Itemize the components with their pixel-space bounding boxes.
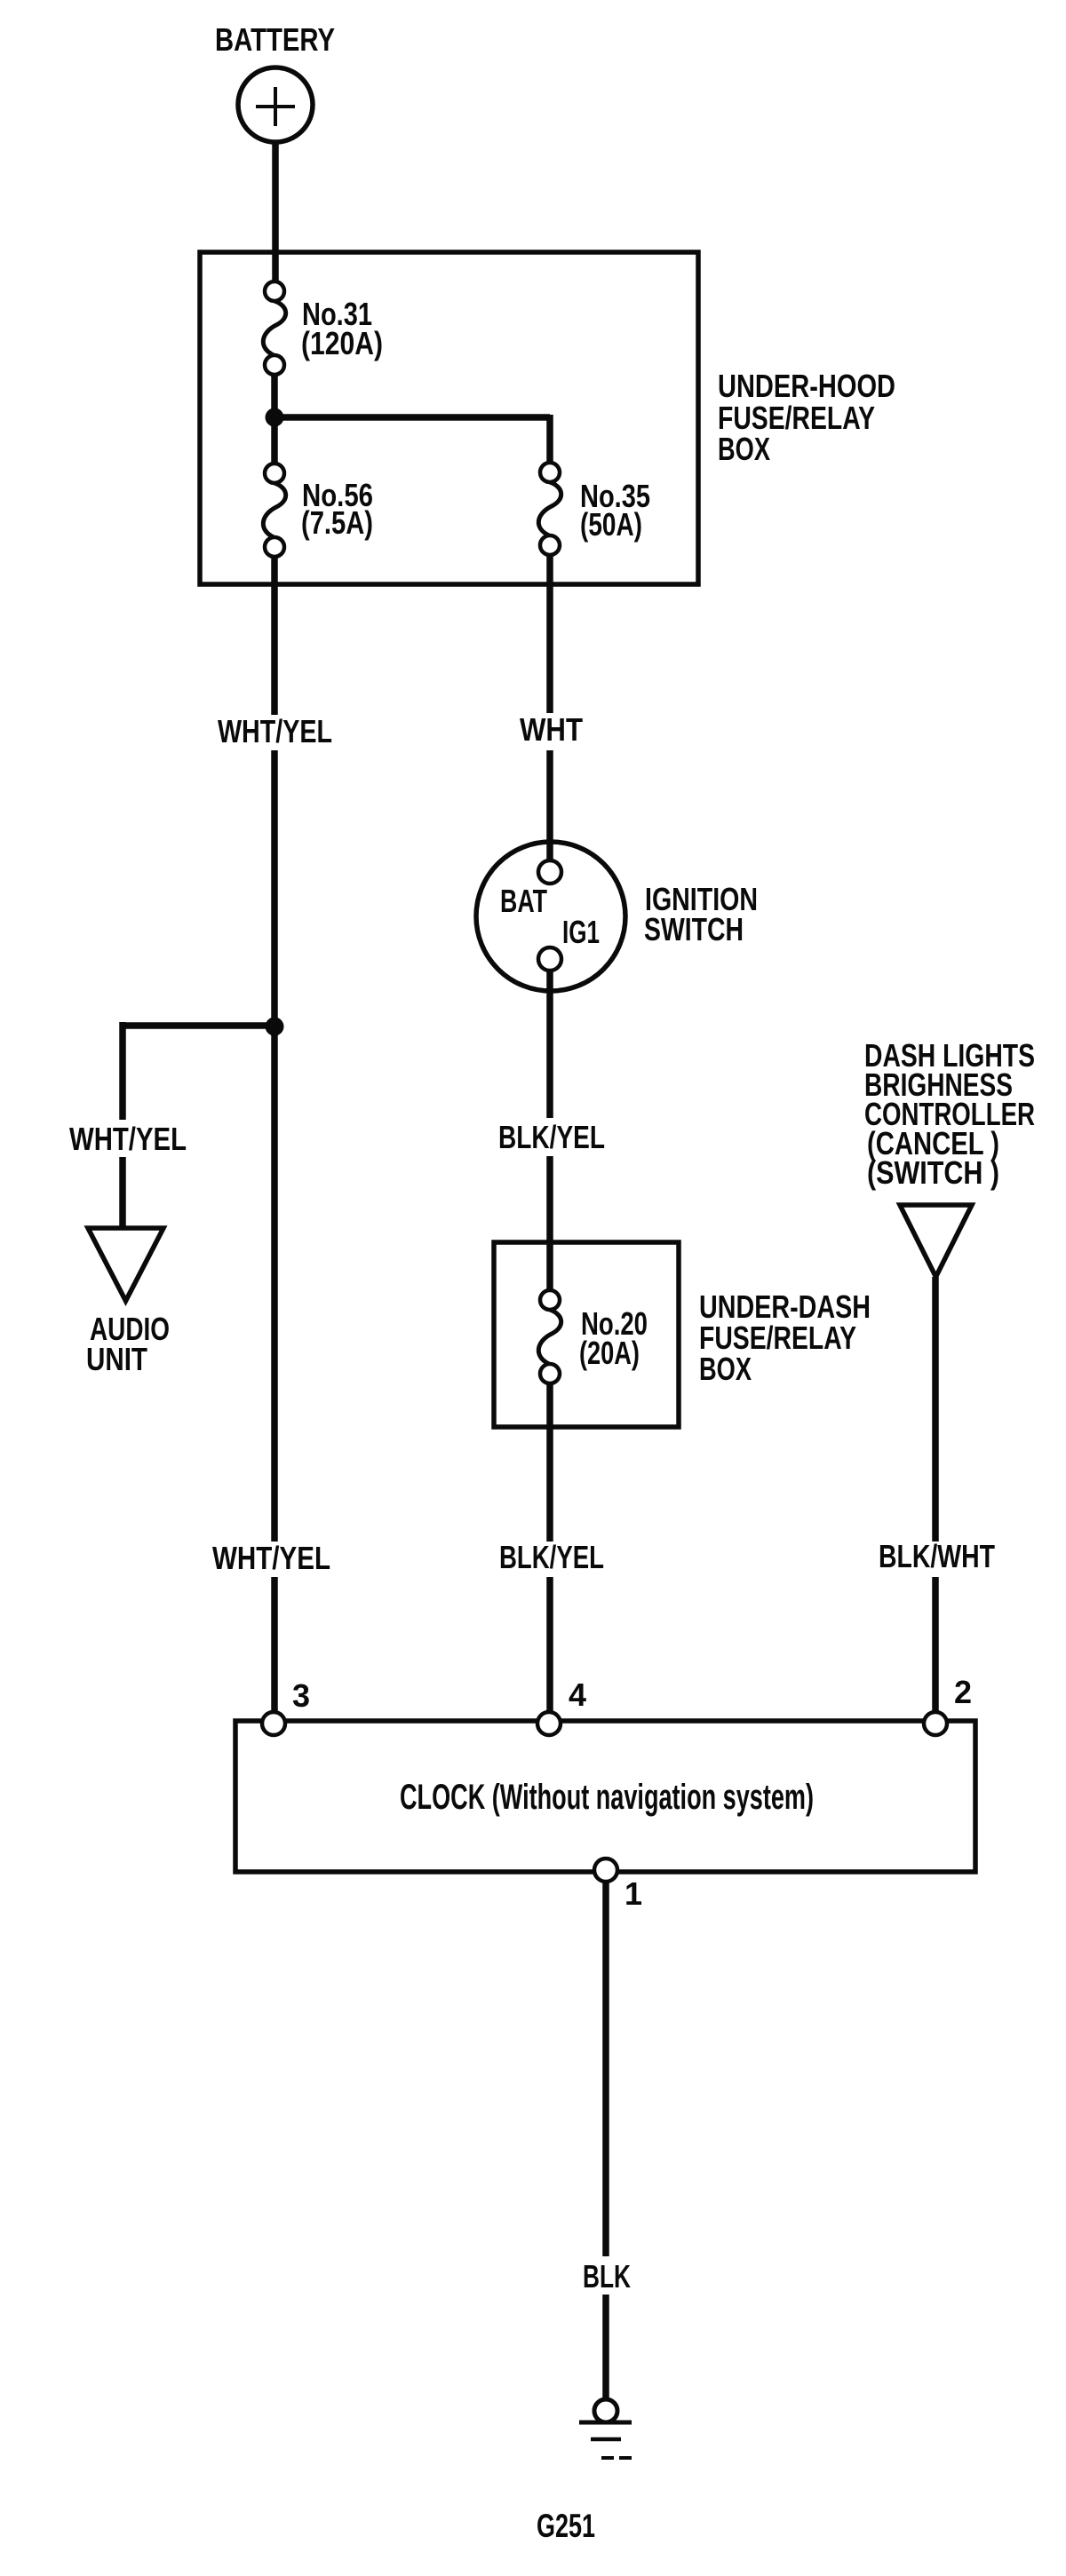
battery positive terminal symbol [238, 67, 313, 142]
under-dash fuse/relay box label [699, 1288, 871, 1387]
svg-text:(20A): (20A) [579, 1335, 640, 1371]
svg-text:BLK: BLK [583, 2258, 631, 2295]
wire branch vertical down [119, 1022, 126, 1120]
svg-text:BAT: BAT [500, 883, 547, 919]
svg-text:WHT: WHT [520, 711, 583, 748]
wire controller down (BLK/WHT net) [932, 1277, 939, 1542]
svg-text:G251: G251 [537, 2508, 595, 2544]
ground G251 symbol [579, 2399, 632, 2458]
svg-text:BLK/YEL: BLK/YEL [498, 1119, 605, 1155]
wire BLK/YEL into under-dash box [546, 1156, 553, 1292]
svg-text:BATTERY: BATTERY [215, 21, 335, 58]
wire branch horizontal to audio unit [123, 1022, 274, 1029]
pin 2 [924, 1712, 947, 1735]
pin 4 [537, 1712, 561, 1735]
wire fuse56 down out of box (WHT/YEL net) [271, 557, 278, 715]
dash lights brightness controller label [864, 1037, 1035, 1191]
wire BLK to ground [602, 2295, 609, 2400]
fuse No.56 value label [301, 477, 373, 541]
svg-text:BLK/YEL: BLK/YEL [499, 1539, 604, 1575]
fuse No.35 (50A) [538, 463, 561, 555]
wire fuse31 to junction [271, 373, 278, 417]
fuse No.20 (20A) [538, 1290, 561, 1383]
dash lights brightness controller connector triangle [900, 1205, 972, 1277]
svg-text:WHT/YEL: WHT/YEL [69, 1121, 187, 1157]
svg-text:4: 4 [569, 1676, 586, 1713]
fuse No.35 value label [580, 478, 650, 543]
svg-text:1: 1 [624, 1875, 642, 1912]
wire WHT/YEL continues to clock area [271, 750, 278, 1542]
audio unit label [86, 1311, 170, 1377]
wire WHT to ignition switch [546, 750, 553, 862]
svg-text:3: 3 [292, 1677, 310, 1714]
svg-text:WHT/YEL: WHT/YEL [212, 1540, 330, 1576]
junction node to audio branch [266, 1018, 284, 1036]
pin 1 [594, 1859, 617, 1882]
wire fuse35 down out of box (WHT net) [546, 555, 553, 713]
under-dash fuse/relay box [494, 1242, 679, 1427]
svg-text:BOX: BOX [718, 431, 770, 467]
fuse No.31 (120A) [263, 281, 285, 375]
fuse No.56 (7.5A) [263, 464, 285, 557]
wire junction to fuse No.56 [271, 417, 278, 464]
svg-text:CLOCK (Without navigation syst: CLOCK (Without navigation system) [400, 1778, 814, 1817]
svg-text:(120A): (120A) [301, 325, 383, 361]
wire BLK/WHT to clock pin 2 [932, 1577, 939, 1714]
svg-text:BOX: BOX [699, 1351, 752, 1387]
svg-text:BLK/WHT: BLK/WHT [879, 1538, 995, 1574]
wire junction to fuse No.35 branch horizontal [272, 414, 550, 421]
svg-text:(50A): (50A) [580, 506, 642, 543]
wire to audio unit connector [119, 1157, 126, 1231]
svg-text:(SWITCH ): (SWITCH ) [867, 1154, 999, 1191]
svg-text:2: 2 [954, 1674, 972, 1710]
svg-text:(7.5A): (7.5A) [301, 504, 373, 541]
wire down to fuse No.35 [546, 415, 553, 464]
wire ignition IG1 down (BLK/YEL net) [546, 970, 553, 1118]
fuse No.20 value label [579, 1305, 648, 1371]
svg-text:IG1: IG1 [562, 914, 600, 950]
svg-text:SWITCH: SWITCH [644, 911, 744, 947]
wire WHT/YEL to clock pin 3 [271, 1577, 278, 1714]
wire pin 1 down (BLK net) [602, 1882, 609, 2256]
audio unit connector triangle [88, 1228, 163, 1301]
svg-text:UNIT: UNIT [86, 1341, 147, 1377]
svg-text:UNDER-HOOD: UNDER-HOOD [718, 368, 895, 404]
wire battery to fuse No.31 [272, 140, 279, 282]
ignition switch label [644, 881, 758, 947]
wire BLK/YEL to clock pin 4 [546, 1577, 553, 1714]
ignition switch [476, 842, 625, 991]
junction node [266, 408, 284, 427]
under-hood fuse/relay box [200, 252, 698, 584]
pin 3 [262, 1712, 285, 1735]
fuse No.31 value label [301, 296, 383, 361]
clock box [235, 1721, 975, 1872]
under-hood fuse/relay box label [718, 368, 895, 467]
wire fuse20 down (BLK/YEL net) [546, 1383, 553, 1542]
svg-text:WHT/YEL: WHT/YEL [218, 713, 332, 749]
